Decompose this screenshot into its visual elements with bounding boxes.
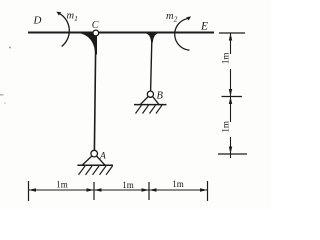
svg-text:C: C [92,20,99,31]
support A triangle [83,156,105,165]
rigid joint fillet at C [80,32,98,55]
rigid joint fillet at hanger top [146,32,158,43]
bottom dim arrows [29,188,37,191]
arrowhead m2 [186,16,191,20]
right dim tick bottom [218,153,247,155]
support B ground line [134,104,167,106]
svg-text:A: A [99,152,106,162]
right dim tick middle [222,96,243,98]
beam D-E [28,32,214,34]
scan speck [0,94,4,96]
svg-text:1m: 1m [220,121,230,133]
right dim label 1m lower [224,122,233,137]
svg-text:1m: 1m [122,180,134,190]
svg-text:1m: 1m [56,180,68,190]
support B pin circle [147,91,153,97]
member C-A [94,35,95,151]
bottom dim tick 2 [93,182,95,200]
svg-text:1m: 1m [220,53,230,65]
right dim label 1m upper [224,54,233,69]
support B hatching [136,105,163,113]
bottom dim tick 3 [148,182,150,200]
support A pin circle [91,150,98,157]
bottom dim tick 1 [28,181,30,201]
scan speck [4,102,6,104]
right dim arrows [229,33,232,41]
scan speck [9,47,11,49]
svg-text:D: D [33,15,42,27]
svg-text:1m: 1m [172,179,184,189]
svg-text:B: B [157,91,164,102]
svg-text:E: E [200,21,208,33]
support B triangle [141,97,159,105]
right dim tick top [219,32,245,34]
support A hatching [79,166,113,175]
hanger member to B [151,33,152,91]
moment arc m2 [175,19,190,51]
arrowhead m1 [56,12,61,16]
moment arc m1 [60,14,69,47]
right dimension line [230,33,232,158]
hinge circle C [93,30,99,36]
bottom dim tick 4 [207,181,209,201]
bottom dimension line [29,189,208,191]
support A ground line [78,164,114,166]
